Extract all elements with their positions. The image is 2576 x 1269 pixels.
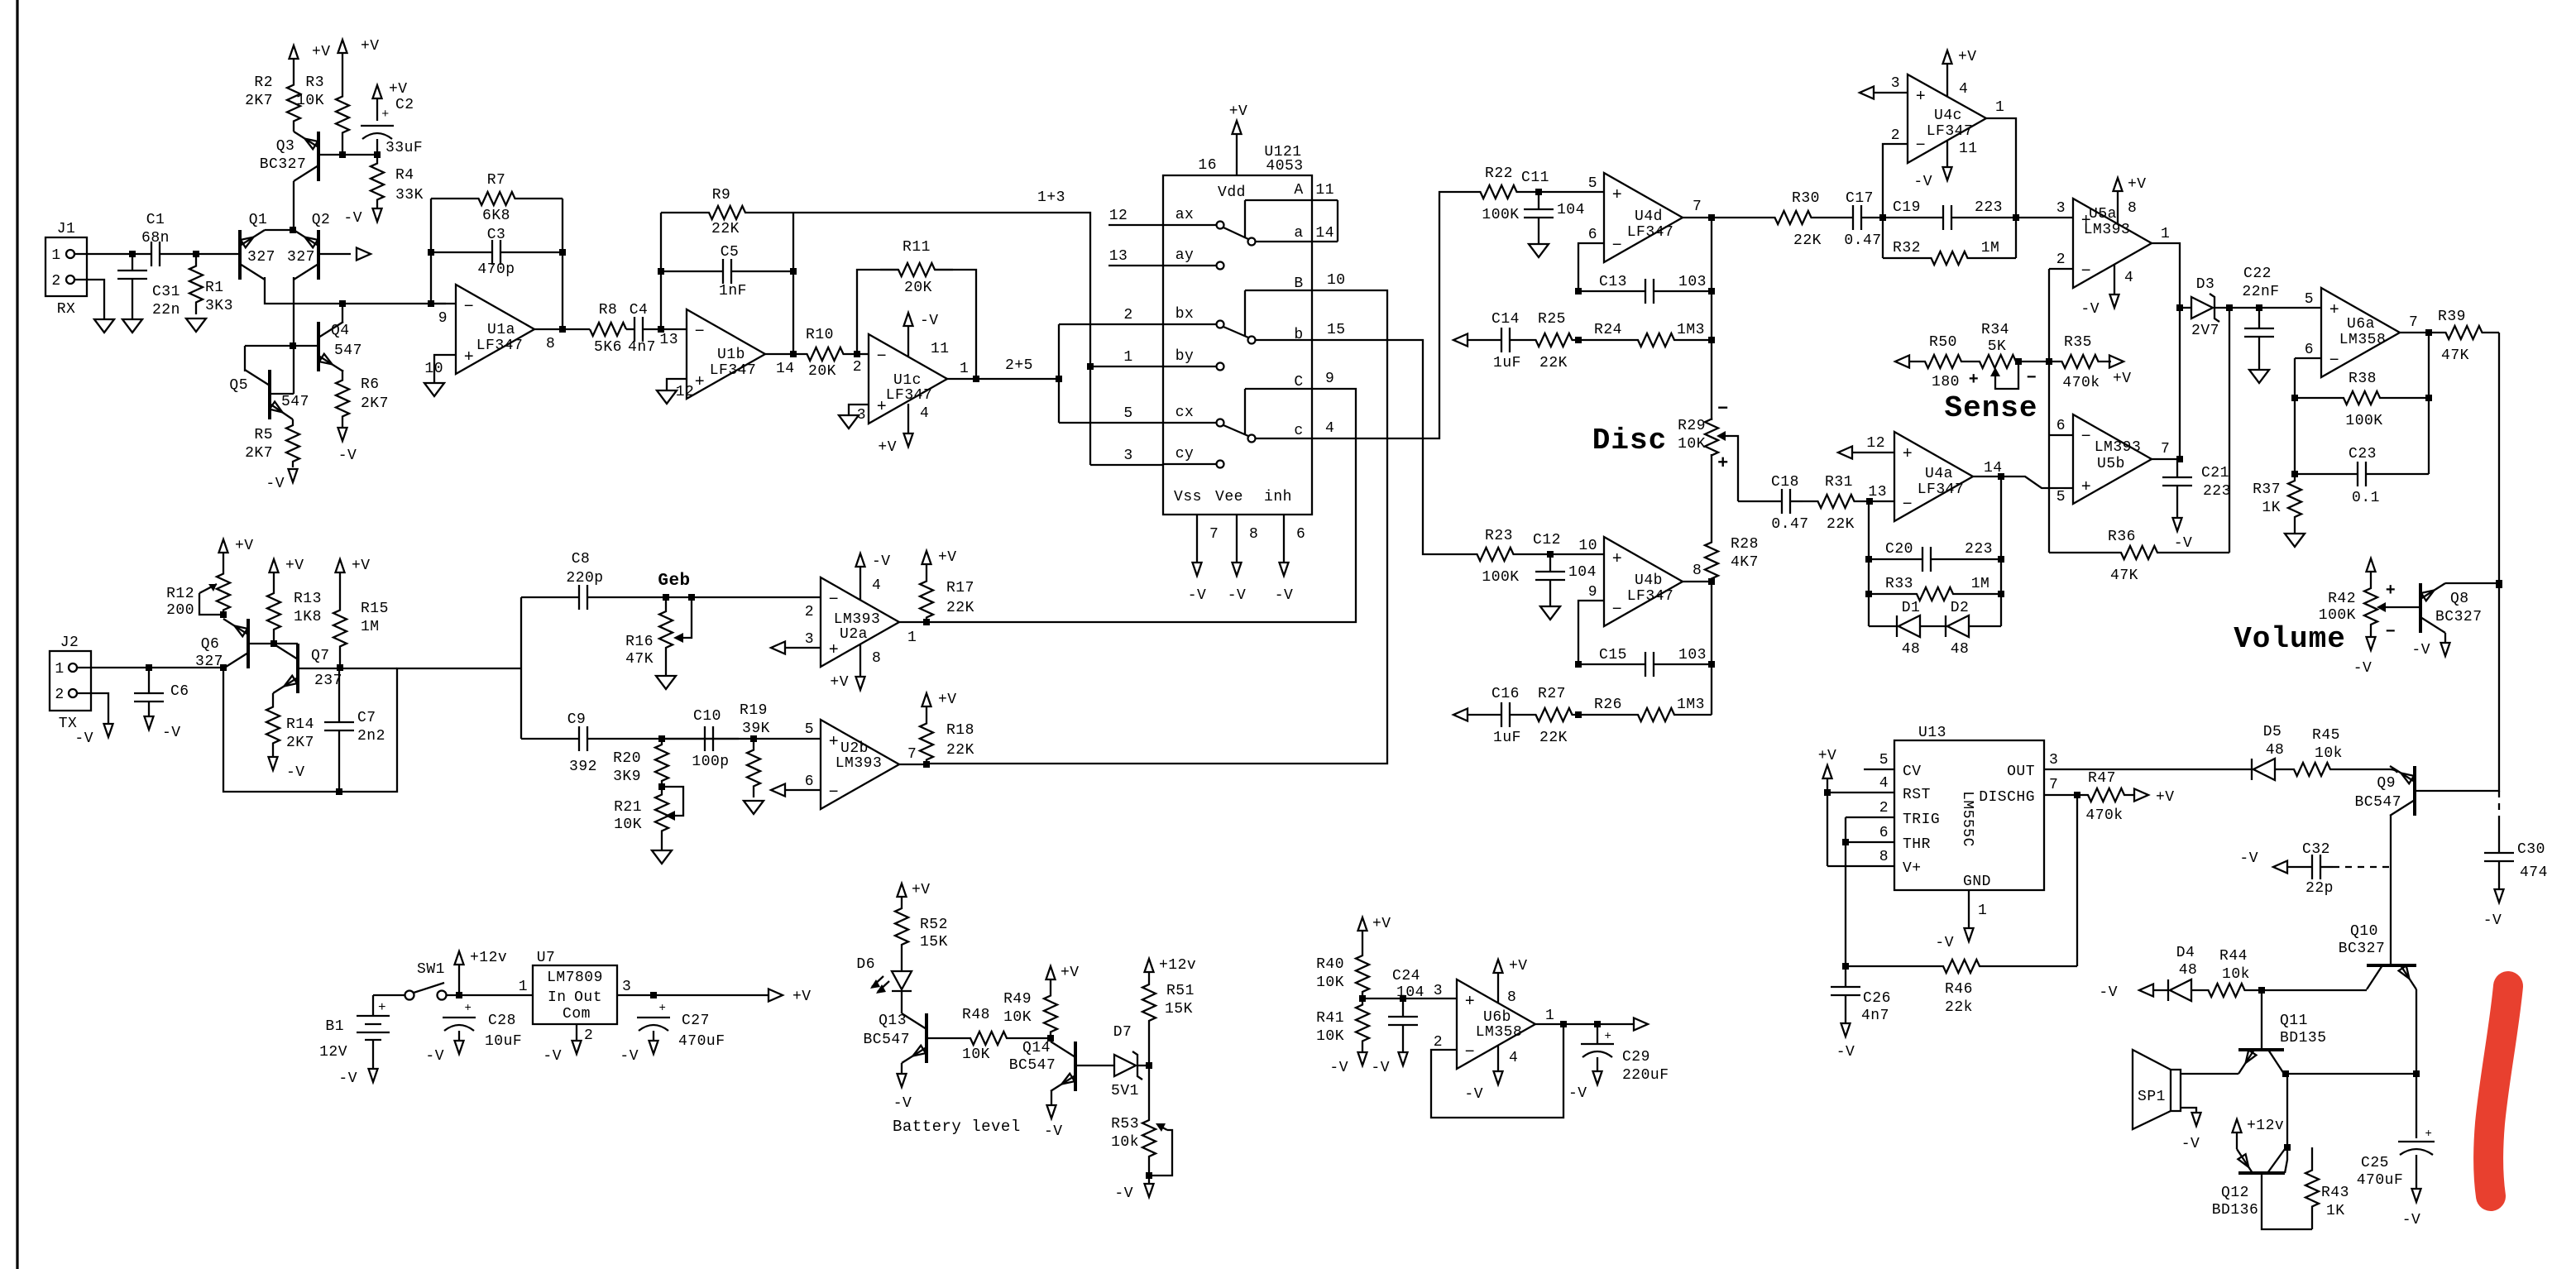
svg-text:−: − bbox=[2027, 369, 2037, 388]
node R12 wiper bbox=[220, 611, 227, 618]
pin 4 stub U6b -V bbox=[1497, 1046, 1499, 1071]
wire by row bbox=[1090, 366, 1163, 367]
svg-text:237: 237 bbox=[314, 673, 342, 689]
feedback rail left U1a bbox=[430, 199, 432, 304]
svg-text:14: 14 bbox=[776, 361, 795, 377]
svg-text:−: − bbox=[1916, 136, 1927, 156]
resistor R4 33K bbox=[371, 155, 384, 208]
svg-text:6: 6 bbox=[805, 773, 814, 790]
op-amp U2b LM393 bbox=[821, 720, 899, 809]
svg-text:R22: R22 bbox=[1485, 165, 1513, 182]
svg-text:C5: C5 bbox=[721, 244, 740, 261]
resistor R35 470k bbox=[2049, 355, 2111, 368]
resistor R41 10K bbox=[1356, 998, 1369, 1047]
svg-text:BD136: BD136 bbox=[2212, 1202, 2259, 1219]
svg-text:-V: -V bbox=[1836, 1044, 1855, 1061]
svg-text:C21: C21 bbox=[2201, 465, 2229, 481]
svg-text:39K: 39K bbox=[742, 721, 770, 737]
svg-text:R50: R50 bbox=[1929, 334, 1957, 351]
svg-text:5: 5 bbox=[2305, 291, 2314, 308]
svg-text:+: + bbox=[829, 641, 840, 660]
svg-text:GND: GND bbox=[1963, 874, 1991, 890]
svg-text:103: 103 bbox=[1678, 647, 1707, 663]
transistor Q3 BC327 bbox=[317, 132, 320, 181]
resistor R31 22K bbox=[1803, 495, 1870, 508]
svg-text:11: 11 bbox=[1315, 182, 1334, 199]
svg-text:Q4: Q4 bbox=[331, 323, 350, 339]
potentiometer R12 200 bbox=[217, 569, 230, 615]
diode D1 48 bbox=[1869, 625, 1899, 627]
wire Q11 collector down to R43 node bbox=[2286, 1074, 2288, 1147]
svg-text:48: 48 bbox=[1951, 641, 1970, 658]
svg-text:D5: D5 bbox=[2263, 724, 2282, 740]
svg-text:TX: TX bbox=[59, 716, 78, 732]
svg-text:Sense: Sense bbox=[1944, 391, 2037, 425]
svg-text:+V: +V bbox=[285, 558, 304, 574]
svg-text:47K: 47K bbox=[2110, 567, 2138, 584]
svg-text:Q12: Q12 bbox=[2221, 1185, 2249, 1201]
svg-text:R40: R40 bbox=[1316, 956, 1344, 973]
svg-text:B1: B1 bbox=[325, 1018, 344, 1035]
pin 5 stub CV bbox=[1864, 769, 1894, 770]
ground under C31 bbox=[122, 319, 142, 333]
svg-text:+V: +V bbox=[235, 538, 254, 554]
power -V under Q14 bbox=[1051, 1091, 1052, 1105]
op-amp U1c LF347 bbox=[869, 334, 947, 424]
svg-text:2K7: 2K7 bbox=[245, 93, 273, 109]
capacitor C6 bbox=[148, 668, 150, 693]
svg-text:R20: R20 bbox=[613, 750, 641, 767]
svg-text:48: 48 bbox=[2266, 742, 2285, 759]
capacitor C2 33uF bbox=[361, 125, 394, 127]
svg-text:CV: CV bbox=[1903, 764, 1922, 780]
svg-text:4: 4 bbox=[1325, 420, 1334, 437]
svg-text:5V1: 5V1 bbox=[1111, 1083, 1139, 1099]
svg-text:10k: 10k bbox=[1111, 1134, 1139, 1151]
resistor R39 47K bbox=[2429, 326, 2499, 339]
svg-text:U1c: U1c bbox=[893, 372, 922, 389]
svg-text:Com: Com bbox=[563, 1006, 591, 1022]
power +12v above R51 bbox=[1145, 959, 1154, 972]
svg-text:5: 5 bbox=[2056, 489, 2066, 505]
node R40 R41 bbox=[1359, 995, 1366, 1002]
svg-text:D4: D4 bbox=[2176, 945, 2195, 961]
svg-text:3: 3 bbox=[2049, 752, 2058, 769]
wire DISCHG to R46 bbox=[2076, 795, 2078, 966]
mux contact ax bbox=[1163, 224, 1216, 226]
potentiometer R42 100K bbox=[2364, 587, 2377, 625]
svg-text:R13: R13 bbox=[294, 591, 322, 607]
svg-text:Out: Out bbox=[574, 989, 602, 1006]
svg-text:103: 103 bbox=[1678, 274, 1707, 290]
svg-text:1: 1 bbox=[1995, 99, 2004, 116]
svg-text:-V: -V bbox=[1329, 1060, 1348, 1076]
resistor R30 22K bbox=[1751, 211, 1835, 224]
svg-text:13: 13 bbox=[1868, 484, 1887, 500]
svg-text:U5b: U5b bbox=[2097, 456, 2125, 472]
IC U13 LM555C body bbox=[1894, 740, 2044, 890]
resistor R25 22K bbox=[1530, 333, 1578, 347]
svg-text:+V: +V bbox=[792, 989, 812, 1005]
svg-text:10uF: 10uF bbox=[485, 1033, 522, 1050]
svg-text:R2: R2 bbox=[254, 74, 273, 91]
svg-text:C17: C17 bbox=[1846, 190, 1874, 207]
transistor Q9 BC547 bbox=[2413, 766, 2416, 816]
capacitor C17 0.47 bbox=[1835, 217, 1853, 218]
svg-text:R8: R8 bbox=[599, 302, 618, 318]
wire R22 to U4d bbox=[1539, 191, 1604, 193]
power -V under R4 bbox=[373, 208, 382, 222]
wire U4a out bbox=[1973, 476, 2001, 477]
svg-text:1: 1 bbox=[907, 630, 917, 646]
transistor Q11 BD135 bbox=[2238, 1048, 2284, 1051]
svg-text:−: − bbox=[1465, 1043, 1476, 1062]
node Q11 collector bbox=[2282, 1070, 2289, 1077]
svg-text:9: 9 bbox=[1325, 371, 1334, 387]
capacitor C5 1nF bbox=[661, 271, 723, 272]
svg-text:Vss: Vss bbox=[1174, 489, 1202, 505]
svg-text:C27: C27 bbox=[682, 1013, 710, 1029]
svg-text:33K: 33K bbox=[395, 187, 424, 204]
svg-text:1nF: 1nF bbox=[719, 283, 747, 299]
ground under U1a pin10 bbox=[424, 383, 444, 396]
svg-text:547: 547 bbox=[334, 342, 362, 359]
svg-text:BC327: BC327 bbox=[2339, 941, 2386, 957]
wire U1a out bbox=[534, 328, 590, 330]
svg-text:Vdd: Vdd bbox=[1218, 184, 1246, 201]
svg-text:C16: C16 bbox=[1491, 686, 1520, 702]
svg-text:R36: R36 bbox=[2108, 529, 2136, 545]
signal arrow C16 bbox=[1453, 709, 1468, 721]
svg-text:Q7: Q7 bbox=[311, 648, 330, 664]
resistor R26 1M3 bbox=[1578, 714, 1601, 716]
wire cy row bbox=[1090, 464, 1163, 466]
wire Geb row bbox=[666, 596, 821, 598]
svg-text:8: 8 bbox=[1879, 849, 1889, 865]
svg-text:11: 11 bbox=[931, 341, 950, 357]
capacitor C16 1uF bbox=[1468, 714, 1501, 716]
svg-text:R37: R37 bbox=[2253, 481, 2281, 498]
power +12v at Q12 bbox=[2233, 1119, 2242, 1133]
svg-text:-V: -V bbox=[2411, 642, 2430, 658]
pin 6 stub THR bbox=[1846, 841, 1894, 843]
svg-text:12V: 12V bbox=[319, 1044, 347, 1061]
diode D5 48 bbox=[2253, 759, 2275, 780]
svg-text:bx: bx bbox=[1175, 306, 1195, 323]
svg-text:C22: C22 bbox=[2243, 266, 2272, 282]
svg-text:223: 223 bbox=[2203, 483, 2231, 500]
svg-text:2: 2 bbox=[853, 359, 862, 376]
svg-text:-V: -V bbox=[2181, 1136, 2200, 1152]
svg-text:C7: C7 bbox=[357, 710, 376, 726]
resistor R19 39K bbox=[747, 739, 760, 797]
svg-text:2: 2 bbox=[805, 604, 814, 620]
pin 4 stub RST bbox=[1827, 792, 1894, 793]
svg-text:2: 2 bbox=[1891, 127, 1900, 144]
svg-text:5: 5 bbox=[1879, 752, 1889, 769]
svg-text:7: 7 bbox=[2161, 441, 2170, 457]
pin 7 stub -V bbox=[1196, 515, 1198, 563]
svg-text:R10: R10 bbox=[806, 327, 834, 343]
svg-text:+V: +V bbox=[912, 882, 931, 898]
resistor R37 1K bbox=[2288, 474, 2301, 524]
power +V for R13 bbox=[270, 559, 279, 572]
svg-text:+V: +V bbox=[938, 692, 957, 708]
power -V under J2 pin2 bbox=[104, 724, 113, 737]
node R34 wiper bbox=[2015, 358, 2022, 365]
svg-text:-V: -V bbox=[1275, 587, 1294, 604]
wire U2b out bbox=[899, 764, 926, 765]
svg-text:5: 5 bbox=[805, 721, 814, 738]
svg-text:TRIG: TRIG bbox=[1903, 812, 1940, 828]
resistor R1 3K3 bbox=[189, 254, 203, 314]
power -V under R41 bbox=[1362, 1047, 1363, 1052]
node Q7 base R15 bbox=[337, 664, 343, 671]
svg-text:10k: 10k bbox=[2222, 966, 2250, 983]
svg-text:Q1: Q1 bbox=[249, 212, 268, 228]
svg-text:U2a: U2a bbox=[840, 626, 868, 643]
wire R31 to U4a bbox=[1870, 500, 1894, 502]
svg-text:7: 7 bbox=[2049, 777, 2058, 793]
svg-text:U4c: U4c bbox=[1934, 108, 1962, 124]
svg-text:470p: 470p bbox=[477, 261, 515, 278]
wire U1c out 2+5 bbox=[947, 378, 1059, 380]
svg-text:3: 3 bbox=[1434, 983, 1443, 999]
node C19 left bbox=[1879, 214, 1886, 221]
svg-text:by: by bbox=[1175, 348, 1195, 365]
wire U4a out to U5b pin5 bbox=[2001, 476, 2073, 488]
svg-text:R44: R44 bbox=[2219, 948, 2248, 965]
capacitor C14 1uF bbox=[1468, 339, 1501, 341]
ground under C11 bbox=[1529, 244, 1549, 257]
ground under R37 bbox=[2294, 524, 2296, 534]
resistor R5 2K7 bbox=[286, 419, 299, 467]
signal arrow R35 +V bbox=[2109, 356, 2124, 368]
svg-text:C: C bbox=[1294, 374, 1303, 390]
svg-text:7: 7 bbox=[2409, 314, 2418, 331]
svg-text:R53: R53 bbox=[1111, 1116, 1139, 1133]
svg-text:Q14: Q14 bbox=[1022, 1040, 1051, 1056]
pin 6 arrow U2b bbox=[771, 784, 785, 797]
resistor R47 470k bbox=[2077, 788, 2135, 802]
svg-text:2: 2 bbox=[1434, 1034, 1443, 1051]
svg-text:22n: 22n bbox=[152, 302, 180, 318]
capacitor C19 223 bbox=[1883, 217, 1943, 218]
ground under R1 bbox=[186, 318, 206, 332]
zener D7 5V1 bbox=[1114, 1055, 1136, 1076]
svg-text:−: − bbox=[695, 323, 706, 342]
signal arrow U6b out bbox=[1634, 1018, 1648, 1031]
signal arrow R47 +V bbox=[2134, 789, 2148, 802]
svg-text:4: 4 bbox=[1959, 81, 1968, 98]
power +V above R52 bbox=[898, 884, 907, 897]
svg-text:+V: +V bbox=[361, 38, 380, 55]
power +V above R17 bbox=[922, 551, 931, 564]
svg-text:R26: R26 bbox=[1594, 697, 1622, 713]
svg-text:+: + bbox=[2386, 582, 2396, 601]
svg-text:U6a: U6a bbox=[2347, 316, 2375, 333]
svg-text:-V: -V bbox=[1188, 587, 1207, 604]
wire U5b out bbox=[2152, 458, 2180, 460]
transistor Q7 BC237 bbox=[296, 644, 299, 693]
svg-text:470k: 470k bbox=[2062, 375, 2100, 391]
svg-text:3: 3 bbox=[805, 631, 814, 648]
wire Q3 base row bbox=[318, 154, 377, 156]
svg-text:14: 14 bbox=[1315, 225, 1334, 242]
svg-text:470uF: 470uF bbox=[678, 1033, 725, 1050]
svg-text:0.47: 0.47 bbox=[1771, 516, 1808, 533]
svg-text:C23: C23 bbox=[2349, 446, 2377, 462]
svg-text:−: − bbox=[2386, 623, 2396, 642]
ground under C22 bbox=[2258, 347, 2260, 370]
wire SP1 top bbox=[2181, 1073, 2238, 1075]
svg-text:3K9: 3K9 bbox=[613, 769, 641, 785]
resistor R32 1M bbox=[1883, 251, 2016, 265]
svg-text:U1a: U1a bbox=[487, 322, 515, 338]
svg-text:8: 8 bbox=[1693, 563, 1702, 579]
svg-text:4n7: 4n7 bbox=[628, 339, 656, 356]
potentiometer R53 10k bbox=[1142, 1101, 1156, 1176]
svg-text:+: + bbox=[659, 1002, 667, 1015]
transistor Q12 BD136 bbox=[2238, 1171, 2285, 1175]
zener D3 2V7 bbox=[2180, 307, 2191, 309]
svg-text:47K: 47K bbox=[625, 651, 654, 668]
svg-text:a: a bbox=[1294, 225, 1303, 242]
svg-text:Q13: Q13 bbox=[879, 1013, 907, 1029]
wire U13 V+ rail bbox=[1827, 793, 1828, 866]
svg-text:LM393: LM393 bbox=[834, 611, 881, 628]
svg-text:-V: -V bbox=[893, 1095, 912, 1112]
wire pin 4 to R22 bbox=[1312, 192, 1458, 438]
svg-text:2: 2 bbox=[55, 687, 64, 703]
resistor R10 20K bbox=[793, 347, 857, 361]
svg-text:1M3: 1M3 bbox=[1677, 322, 1705, 338]
svg-text:-V: -V bbox=[338, 448, 357, 464]
svg-text:R41: R41 bbox=[1316, 1010, 1344, 1027]
wire ay stub bbox=[1108, 265, 1163, 266]
svg-text:LM393: LM393 bbox=[2084, 222, 2131, 238]
svg-text:327: 327 bbox=[287, 249, 315, 266]
svg-text:22k: 22k bbox=[1945, 999, 1973, 1016]
svg-text:22K: 22K bbox=[1827, 516, 1855, 533]
svg-text:−: − bbox=[829, 783, 840, 802]
ground under R16 bbox=[665, 662, 667, 676]
capacitor C21 223 bbox=[2176, 459, 2178, 477]
svg-text:Geb: Geb bbox=[658, 572, 690, 591]
op-amp U4d LF347 bbox=[1604, 173, 1683, 262]
svg-text:33uF: 33uF bbox=[385, 140, 423, 156]
svg-text:10: 10 bbox=[424, 361, 443, 377]
connector J1 bbox=[45, 237, 87, 296]
op-amp U6a LM358 bbox=[2321, 288, 2400, 377]
svg-text:BC547: BC547 bbox=[863, 1032, 910, 1048]
svg-text:R14: R14 bbox=[286, 716, 314, 733]
wire cx row bbox=[1059, 422, 1163, 424]
op-amp U5a LM393 bbox=[2073, 199, 2152, 288]
svg-text:Q5: Q5 bbox=[229, 377, 248, 394]
svg-text:10K: 10K bbox=[1316, 1028, 1344, 1045]
svg-text:BD135: BD135 bbox=[2280, 1030, 2327, 1046]
svg-text:C19: C19 bbox=[1893, 199, 1921, 216]
svg-text:47K: 47K bbox=[2441, 347, 2469, 364]
svg-text:15K: 15K bbox=[920, 934, 948, 951]
svg-text:470uF: 470uF bbox=[2357, 1172, 2404, 1189]
pin 6 stub U5b bbox=[2049, 434, 2073, 436]
svg-text:c: c bbox=[1294, 423, 1303, 439]
svg-text:R9: R9 bbox=[712, 187, 731, 204]
svg-text:LM7809: LM7809 bbox=[547, 970, 603, 986]
svg-text:R18: R18 bbox=[946, 722, 974, 739]
resistor R27 22K bbox=[1530, 708, 1578, 721]
svg-text:-V: -V bbox=[2174, 535, 2193, 552]
svg-text:-V: -V bbox=[343, 210, 362, 227]
svg-text:R46: R46 bbox=[1945, 981, 1973, 998]
capacitor C13 103 bbox=[1578, 290, 1645, 292]
power +V above R49 bbox=[1046, 966, 1056, 979]
svg-text:C30: C30 bbox=[2517, 841, 2545, 858]
capacitor C31 22n bbox=[132, 254, 133, 271]
svg-text:1: 1 bbox=[1123, 349, 1132, 366]
resistor R9 22K bbox=[661, 206, 793, 219]
svg-text:RX: RX bbox=[57, 301, 76, 318]
svg-text:12: 12 bbox=[676, 384, 695, 400]
mux contact ay bbox=[1163, 265, 1216, 266]
signal arrow Q2 base bbox=[357, 248, 371, 261]
svg-text:10K: 10K bbox=[962, 1046, 990, 1063]
svg-text:14: 14 bbox=[1984, 460, 2003, 476]
transistor Q13 BC547 bbox=[925, 1013, 928, 1063]
svg-text:LF347: LF347 bbox=[1627, 224, 1674, 241]
svg-text:+V: +V bbox=[1061, 965, 1080, 981]
pin 8 stub Vplus bbox=[1827, 865, 1894, 867]
svg-text:+: + bbox=[381, 108, 390, 122]
svg-text:-V: -V bbox=[1568, 1085, 1587, 1102]
node R20 R21 bbox=[658, 783, 665, 790]
svg-text:-V: -V bbox=[2099, 984, 2118, 1001]
power -V under R14 bbox=[269, 757, 278, 770]
power +V above R18 bbox=[922, 693, 931, 706]
connector J2 bbox=[50, 651, 91, 711]
svg-text:2: 2 bbox=[51, 273, 60, 290]
svg-text:6: 6 bbox=[1296, 526, 1305, 543]
svg-text:BC327: BC327 bbox=[260, 156, 307, 173]
wire U7 out bbox=[617, 994, 769, 996]
wire U1b out bbox=[765, 353, 793, 355]
wire J1 pin2 down bbox=[74, 280, 104, 319]
svg-text:+: + bbox=[1465, 993, 1476, 1012]
svg-text:R1: R1 bbox=[205, 280, 224, 296]
pin 11 stub U4c -V bbox=[1946, 141, 1948, 167]
resistor R14 2K7 bbox=[266, 693, 280, 757]
svg-text:1: 1 bbox=[1545, 1008, 1554, 1024]
svg-text:5: 5 bbox=[1123, 405, 1132, 422]
svg-text:4K7: 4K7 bbox=[1731, 554, 1759, 571]
wire U5b out rail up bbox=[2179, 308, 2181, 459]
pin 2 stub TRIG bbox=[1846, 816, 1894, 818]
svg-text:22K: 22K bbox=[1793, 232, 1822, 249]
capacitor C26 4n7 bbox=[1845, 966, 1846, 987]
svg-text:15K: 15K bbox=[1165, 1001, 1193, 1018]
power -V under R42 bbox=[2370, 625, 2372, 637]
svg-text:22K: 22K bbox=[1539, 355, 1568, 371]
svg-text:R25: R25 bbox=[1538, 311, 1566, 328]
pin 2 loop U4c bbox=[1883, 144, 1908, 218]
right bus down bbox=[2498, 333, 2500, 792]
svg-text:R48: R48 bbox=[962, 1007, 990, 1023]
svg-text:C25: C25 bbox=[2361, 1155, 2389, 1171]
svg-text:R31: R31 bbox=[1825, 474, 1853, 491]
svg-text:Q3: Q3 bbox=[276, 138, 295, 155]
